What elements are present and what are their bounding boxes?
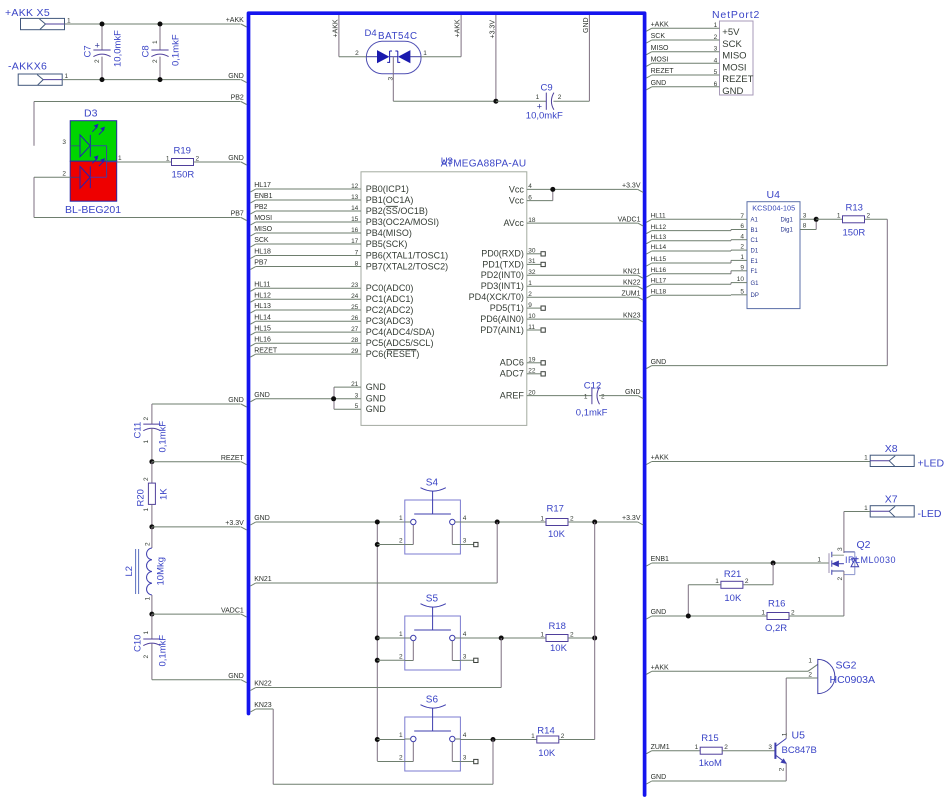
wire C12 to GND [599, 395, 638, 397]
svg-text:+AKK: +AKK [333, 19, 340, 37]
svg-text:S5: S5 [426, 594, 439, 605]
wire S6 pin1 [377, 739, 405, 741]
wire +3.3V tap [149, 524, 154, 529]
capacitor C12 0,1mkF [527, 395, 592, 397]
svg-text:R14: R14 [537, 726, 554, 737]
junction dots C7 [100, 22, 105, 27]
wire S6 pin4 to R14 [460, 739, 536, 741]
svg-text:U4: U4 [767, 189, 781, 201]
svg-text:1: 1 [715, 578, 719, 585]
svg-text:R21: R21 [724, 569, 741, 580]
svg-text:C10: C10 [132, 635, 143, 652]
wire +3.3V drop [495, 15, 497, 101]
svg-text:1: 1 [144, 597, 151, 601]
svg-text:REZET: REZET [254, 347, 278, 354]
resistor R20 1K (vertical) [148, 483, 155, 504]
svg-text:2: 2 [570, 515, 574, 522]
svg-text:1: 1 [864, 454, 868, 461]
svg-text:HL14: HL14 [651, 244, 667, 251]
wire S4 pin2 [377, 544, 405, 546]
resistor R17 10K [546, 519, 568, 526]
wire ENB1 to Q2 gate [646, 563, 651, 566]
wires HL11-HL18 to U4 [646, 219, 651, 222]
svg-text:1: 1 [761, 609, 765, 616]
wire VADC1 tap [149, 612, 154, 617]
resistor R15 1koM [700, 747, 722, 754]
microcontroller U3 ATMEGA88PA-AU [361, 172, 527, 426]
svg-text:1: 1 [808, 658, 812, 665]
junction dots C8 [158, 22, 163, 27]
tact switch S4 [405, 500, 461, 554]
wire U4 Dig1 pins join [800, 218, 816, 220]
svg-text:2: 2 [779, 767, 786, 771]
svg-text:A1: A1 [751, 218, 759, 224]
buzzer SG2 HC0903A [818, 659, 835, 693]
svg-text:O,2R: O,2R [765, 623, 787, 634]
svg-text:NetPort2: NetPort2 [712, 9, 760, 21]
svg-text:KN22: KN22 [623, 280, 641, 287]
svg-text:U5: U5 [792, 729, 806, 741]
svg-text:R16: R16 [768, 598, 785, 609]
svg-text:0,1mkF: 0,1mkF [171, 34, 182, 66]
svg-text:4: 4 [463, 732, 467, 739]
capacitor C8 0,1mkF [159, 24, 161, 50]
LED D3 arrows red [92, 158, 97, 163]
resistor R14 10K [537, 736, 559, 743]
svg-text:1: 1 [584, 394, 588, 401]
gnd vertical rail switches [376, 522, 378, 761]
svg-text:2: 2 [601, 394, 605, 401]
svg-text:R19: R19 [174, 146, 191, 157]
svg-text:Vcc: Vcc [509, 184, 525, 194]
svg-text:PD0(RXD): PD0(RXD) [481, 249, 524, 259]
wires NetPort2 to bus [652, 27, 720, 29]
wire R15 to U5 base [722, 750, 776, 752]
wire GND to C11 [152, 403, 241, 405]
svg-text:SCK: SCK [651, 33, 666, 40]
svg-text:GND: GND [651, 359, 667, 366]
wire PB2 net [34, 101, 241, 103]
svg-text:PC0(ADC0): PC0(ADC0) [366, 283, 414, 293]
svg-text:HL12: HL12 [651, 224, 667, 231]
wire +AKK drop left of D4 [338, 15, 340, 57]
svg-text:10,0mkF: 10,0mkF [113, 30, 124, 67]
svg-text:1: 1 [399, 732, 403, 739]
svg-text:HL17: HL17 [254, 182, 271, 189]
svg-text:PD1(TXD): PD1(TXD) [482, 259, 524, 269]
svg-text:HC0903A: HC0903A [830, 674, 876, 686]
svg-text:DP: DP [751, 293, 759, 299]
svg-text:HL15: HL15 [254, 325, 271, 332]
bus frame (blue power bus) [249, 13, 645, 795]
svg-text:ADC6: ADC6 [500, 358, 524, 368]
svg-text:1: 1 [143, 440, 150, 444]
svg-text:Dig1: Dig1 [780, 217, 793, 223]
svg-text:2: 2 [561, 733, 565, 740]
svg-text:1: 1 [540, 515, 544, 522]
svg-text:+5V: +5V [722, 27, 740, 38]
svg-text:1: 1 [782, 732, 789, 736]
svg-text:KCSD04-105: KCSD04-105 [752, 204, 795, 213]
svg-text:HL16: HL16 [254, 336, 271, 343]
svg-text:4: 4 [463, 515, 467, 522]
svg-text:KN23: KN23 [623, 312, 641, 319]
LED D3 red element [70, 176, 80, 178]
svg-text:2: 2 [399, 754, 403, 761]
svg-text:1: 1 [143, 508, 150, 512]
svg-text:ADC7: ADC7 [500, 369, 524, 379]
svg-text:PB7: PB7 [231, 211, 244, 218]
svg-text:PC4(ADC4/SDA): PC4(ADC4/SDA) [366, 327, 435, 337]
svg-text:B1: B1 [751, 228, 759, 234]
wire Q2 source to R16 [843, 571, 845, 616]
svg-text:3: 3 [463, 653, 467, 660]
wire S5 pin2 [377, 659, 405, 661]
svg-text:SCK: SCK [254, 237, 269, 244]
svg-text:1: 1 [423, 50, 427, 57]
svg-text:R17: R17 [547, 503, 564, 514]
svg-text:1K: 1K [158, 488, 169, 500]
svg-text:PB6(XTAL1/TOSC1): PB6(XTAL1/TOSC1) [366, 250, 449, 260]
svg-text:10K: 10K [538, 748, 556, 759]
svg-text:KN22: KN22 [254, 681, 272, 688]
svg-text:GND: GND [651, 609, 667, 616]
svg-text:S6: S6 [426, 695, 439, 706]
svg-text:+3.3V: +3.3V [490, 20, 497, 39]
svg-text:GND: GND [254, 392, 270, 399]
svg-text:HL18: HL18 [651, 288, 667, 295]
svg-text:2: 2 [143, 417, 150, 421]
svg-text:3: 3 [463, 754, 467, 761]
svg-text:PC1(ADC1): PC1(ADC1) [366, 294, 414, 304]
wire +AKK to SG2 [646, 671, 651, 674]
svg-text:3: 3 [803, 212, 807, 219]
svg-text:2: 2 [837, 577, 844, 581]
svg-text:Q2: Q2 [857, 539, 871, 551]
wire PD6 KN23 [527, 318, 638, 320]
wire +AKK to X8 [646, 462, 651, 465]
svg-text:PD2(INT0): PD2(INT0) [481, 270, 524, 280]
resistor R21 10K [772, 563, 774, 585]
svg-text:KN21: KN21 [623, 269, 641, 276]
svg-text:+AKK: +AKK [651, 455, 669, 462]
+3.3V vertical rail resistors [594, 522, 596, 740]
svg-text:IRLML0030: IRLML0030 [845, 555, 896, 565]
svg-text:PB2: PB2 [254, 204, 267, 211]
svg-text:C11: C11 [132, 422, 143, 439]
svg-text:HL12: HL12 [254, 292, 271, 299]
no-connect stubs right pins [527, 253, 541, 255]
svg-text:3: 3 [837, 547, 844, 551]
svg-text:GND: GND [583, 17, 590, 33]
wire R13 to GND loop [865, 218, 888, 220]
junction U3 gnd [331, 396, 336, 401]
svg-text:+AKK: +AKK [651, 21, 669, 28]
svg-text:4: 4 [463, 631, 467, 638]
svg-text:+3.3V: +3.3V [225, 520, 244, 527]
D3 internal cathode wire [106, 146, 108, 178]
svg-text:2: 2 [791, 609, 795, 616]
svg-text:HL11: HL11 [254, 282, 270, 289]
svg-text:HL17: HL17 [651, 278, 667, 285]
svg-text:L2: L2 [124, 566, 135, 577]
svg-text:C9: C9 [541, 83, 553, 94]
wire GND to U3 ground pins [250, 399, 255, 402]
junctions gnd rail [375, 520, 380, 525]
svg-text:2: 2 [152, 59, 159, 63]
svg-text:E1: E1 [751, 259, 759, 265]
svg-text:PB7: PB7 [254, 260, 267, 267]
svg-text:C12: C12 [584, 381, 601, 392]
svg-text:10K: 10K [724, 593, 742, 604]
svg-text:2: 2 [558, 94, 562, 101]
svg-text:+AKK: +AKK [455, 19, 462, 37]
svg-text:1: 1 [143, 631, 150, 635]
svg-text:1: 1 [118, 155, 122, 162]
svg-text:2: 2 [745, 578, 749, 585]
svg-text:HL13: HL13 [651, 234, 667, 241]
wire U5 emitter to GND [785, 763, 787, 781]
wire S5 pin4 to R18 [460, 637, 546, 639]
wire C10 to GND [152, 679, 241, 681]
wire AVcc to VADC1 [527, 222, 638, 224]
resistor R18 10K [546, 635, 568, 642]
wire R17 to +3.3V [568, 521, 638, 523]
svg-text:PB2: PB2 [231, 95, 244, 102]
svg-text:D1: D1 [751, 249, 759, 255]
svg-text:VADC1: VADC1 [618, 216, 641, 223]
wire KN23 loop [492, 740, 494, 785]
wire PD4 ZUM1 [527, 296, 638, 298]
svg-text:GND: GND [254, 515, 270, 522]
svg-text:PC5(ADC5/SCL): PC5(ADC5/SCL) [366, 338, 434, 348]
LED D3 arrows green [92, 126, 97, 131]
wire S4 pin4 to R17 [460, 521, 546, 523]
wire C9 pin2 to GND [553, 100, 589, 102]
svg-text:KN21: KN21 [254, 576, 272, 583]
S6 pin3 no connect [460, 761, 473, 763]
resistor R16 0,2R [767, 613, 789, 620]
svg-text:REZET: REZET [651, 68, 675, 75]
tact switch S6 [405, 717, 461, 771]
wire PD3 KN22 [527, 285, 638, 287]
svg-text:MOSI: MOSI [722, 62, 746, 73]
wire D4 pin3 down [392, 57, 394, 101]
svg-text:R13: R13 [846, 202, 863, 213]
junction U4 out [814, 217, 819, 222]
svg-text:1: 1 [536, 94, 540, 101]
svg-text:MISO: MISO [722, 51, 746, 62]
wire PD2 KN21 [527, 274, 638, 276]
svg-text:1: 1 [695, 744, 699, 751]
resistor R19 150R [117, 161, 172, 163]
svg-text:GND: GND [228, 673, 244, 680]
svg-text:2: 2 [144, 542, 151, 546]
svg-text:PB7(XTAL2/TOSC2): PB7(XTAL2/TOSC2) [366, 261, 449, 271]
svg-text:MISO: MISO [254, 226, 272, 233]
svg-text:PB0(ICP1): PB0(ICP1) [366, 184, 409, 194]
svg-text:C1: C1 [751, 238, 759, 244]
svg-text:R20: R20 [135, 489, 146, 506]
capacitor C7 10,0mkF [101, 24, 103, 50]
svg-text:G1: G1 [751, 281, 760, 287]
svg-text:1: 1 [817, 556, 821, 563]
svg-text:10K: 10K [550, 643, 568, 654]
svg-text:+AKK X5: +AKK X5 [5, 7, 50, 19]
svg-text:GND: GND [366, 404, 387, 414]
capacitor C11 0,1mkF [143, 423, 160, 425]
svg-text:C7: C7 [82, 45, 93, 57]
svg-text:C8: C8 [140, 45, 151, 57]
wire +AKK rail top [65, 23, 241, 25]
svg-text:PB5(SCK): PB5(SCK) [366, 239, 408, 249]
svg-text:GND: GND [625, 389, 641, 396]
wire REZET tap [149, 459, 154, 464]
svg-text:PB3(OC2A/MOSI): PB3(OC2A/MOSI) [366, 217, 439, 227]
svg-text:HL15: HL15 [651, 256, 667, 263]
svg-text:2: 2 [196, 155, 200, 162]
svg-text:Dig1: Dig1 [780, 228, 793, 234]
svg-text:PD7(AIN1): PD7(AIN1) [480, 325, 524, 335]
wire R18 right [568, 637, 595, 639]
svg-text:GND: GND [228, 73, 244, 80]
wire GND to switches [250, 522, 255, 525]
wire GND rail top [62, 79, 240, 81]
capacitor C10 0,1mkF [143, 638, 160, 640]
svg-text:R15: R15 [701, 733, 718, 744]
svg-text:HL11: HL11 [651, 213, 666, 220]
svg-text:X7: X7 [885, 493, 898, 505]
svg-text:1: 1 [399, 515, 403, 522]
svg-text:2: 2 [399, 653, 403, 660]
svg-text:3: 3 [62, 139, 66, 146]
svg-text:2: 2 [399, 537, 403, 544]
svg-text:GND: GND [228, 155, 244, 162]
inductor L2 10Mkg [147, 548, 152, 595]
svg-text:-LED: -LED [918, 508, 942, 520]
svg-text:1: 1 [837, 213, 841, 220]
svg-text:HL16: HL16 [651, 267, 667, 274]
svg-text:ENB1: ENB1 [651, 556, 669, 563]
svg-text:AREF: AREF [500, 391, 525, 401]
svg-text:3: 3 [768, 744, 772, 751]
wires U3 left pins to left bus [250, 189, 255, 192]
wire GND row q2 [646, 616, 651, 619]
capacitor C9 10,0mkF [496, 100, 546, 102]
svg-text:2: 2 [570, 631, 574, 638]
svg-text:2: 2 [94, 59, 101, 63]
svg-text:2: 2 [355, 50, 359, 57]
svg-text:PD4(XCK/T0): PD4(XCK/T0) [469, 292, 524, 302]
svg-text:10K: 10K [548, 529, 566, 540]
wire D3 pin2 to PB7 [34, 176, 70, 178]
svg-text:150R: 150R [172, 170, 195, 181]
svg-text:+AKK: +AKK [651, 665, 669, 672]
svg-text:PC6(RESET): PC6(RESET) [366, 349, 420, 359]
svg-text:10Mkg: 10Mkg [155, 557, 166, 586]
svg-text:1: 1 [166, 155, 170, 162]
svg-text:PC3(ADC3): PC3(ADC3) [366, 316, 414, 326]
svg-text:PD5(T1): PD5(T1) [490, 303, 524, 313]
svg-text:HL13: HL13 [254, 303, 271, 310]
wire Vcc pins to +3.3V [527, 188, 638, 190]
wire R19 to GND [194, 161, 241, 163]
svg-text:+3.3V: +3.3V [622, 515, 641, 522]
svg-text:1: 1 [531, 733, 535, 740]
svg-text:PB4(MISO): PB4(MISO) [366, 228, 412, 238]
svg-text:BC847B: BC847B [782, 745, 817, 756]
svg-text:VADC1: VADC1 [221, 607, 244, 614]
svg-text:REZET: REZET [722, 74, 753, 85]
svg-text:ATMEGA88PA-AU: ATMEGA88PA-AU [441, 158, 527, 169]
svg-text:KN23: KN23 [254, 702, 272, 709]
svg-text:BAT54C: BAT54C [378, 31, 418, 42]
svg-text:3: 3 [463, 537, 467, 544]
svg-text:GND: GND [722, 86, 743, 97]
svg-text:-AKKX6: -AKKX6 [8, 60, 47, 72]
svg-text:Vcc: Vcc [509, 196, 525, 206]
svg-text:8: 8 [803, 223, 807, 230]
svg-text:1koM: 1koM [699, 758, 722, 769]
LED D3 green element [70, 145, 80, 147]
wire KN21 loop [496, 522, 498, 583]
svg-text:GND: GND [651, 774, 667, 781]
svg-text:PD6(AIN0): PD6(AIN0) [480, 314, 524, 324]
svg-text:150R: 150R [843, 227, 866, 238]
svg-text:1: 1 [399, 631, 403, 638]
svg-text:MOSI: MOSI [651, 57, 669, 64]
svg-text:ENB1: ENB1 [254, 193, 272, 200]
svg-text:+LED: +LED [918, 457, 945, 469]
svg-text:0,1mkF: 0,1mkF [576, 408, 608, 419]
svg-text:ZUM1: ZUM1 [621, 290, 640, 297]
wire SG2 pin2 to U5 collector [786, 677, 818, 679]
wire S6 pin2 [377, 761, 405, 763]
wire D4 pin1 to +AKK [421, 56, 461, 58]
svg-text:+3.3V: +3.3V [622, 183, 641, 190]
tact switch S5 [405, 616, 461, 670]
svg-text:F1: F1 [751, 269, 759, 275]
svg-text:2: 2 [724, 744, 728, 751]
svg-text:PB2(SS/OC1B): PB2(SS/OC1B) [366, 206, 428, 216]
svg-text:2: 2 [143, 477, 150, 481]
svg-text:10,0mkF: 10,0mkF [526, 111, 563, 122]
svg-text:0,1mkF: 0,1mkF [157, 421, 168, 453]
svg-text:2: 2 [867, 213, 871, 220]
svg-text:S4: S4 [426, 478, 439, 489]
wire R14 right [559, 739, 595, 741]
svg-text:REZET: REZET [221, 455, 245, 462]
S5 pin3 no connect [460, 659, 473, 661]
svg-text:PB1(OC1A): PB1(OC1A) [366, 195, 414, 205]
S4 pin3 no connect [460, 544, 473, 546]
svg-text:+AKK: +AKK [226, 17, 244, 24]
svg-text:2: 2 [62, 171, 66, 178]
svg-text:0,1mkF: 0,1mkF [157, 635, 168, 667]
svg-text:R18: R18 [549, 621, 566, 632]
svg-text:+: + [95, 40, 100, 50]
svg-text:1: 1 [152, 40, 159, 44]
svg-text:GND: GND [366, 382, 387, 392]
svg-text:PD3(INT1): PD3(INT1) [481, 281, 524, 291]
wire X7 to Q2 drain [844, 511, 870, 513]
junction D4/C9/+3.3V [493, 99, 498, 104]
wire S5 pin1 [377, 637, 405, 639]
svg-text:MOSI: MOSI [254, 215, 272, 222]
svg-text:GND: GND [366, 394, 387, 404]
svg-text:D4: D4 [365, 28, 377, 39]
svg-text:ZUM1: ZUM1 [651, 744, 670, 751]
